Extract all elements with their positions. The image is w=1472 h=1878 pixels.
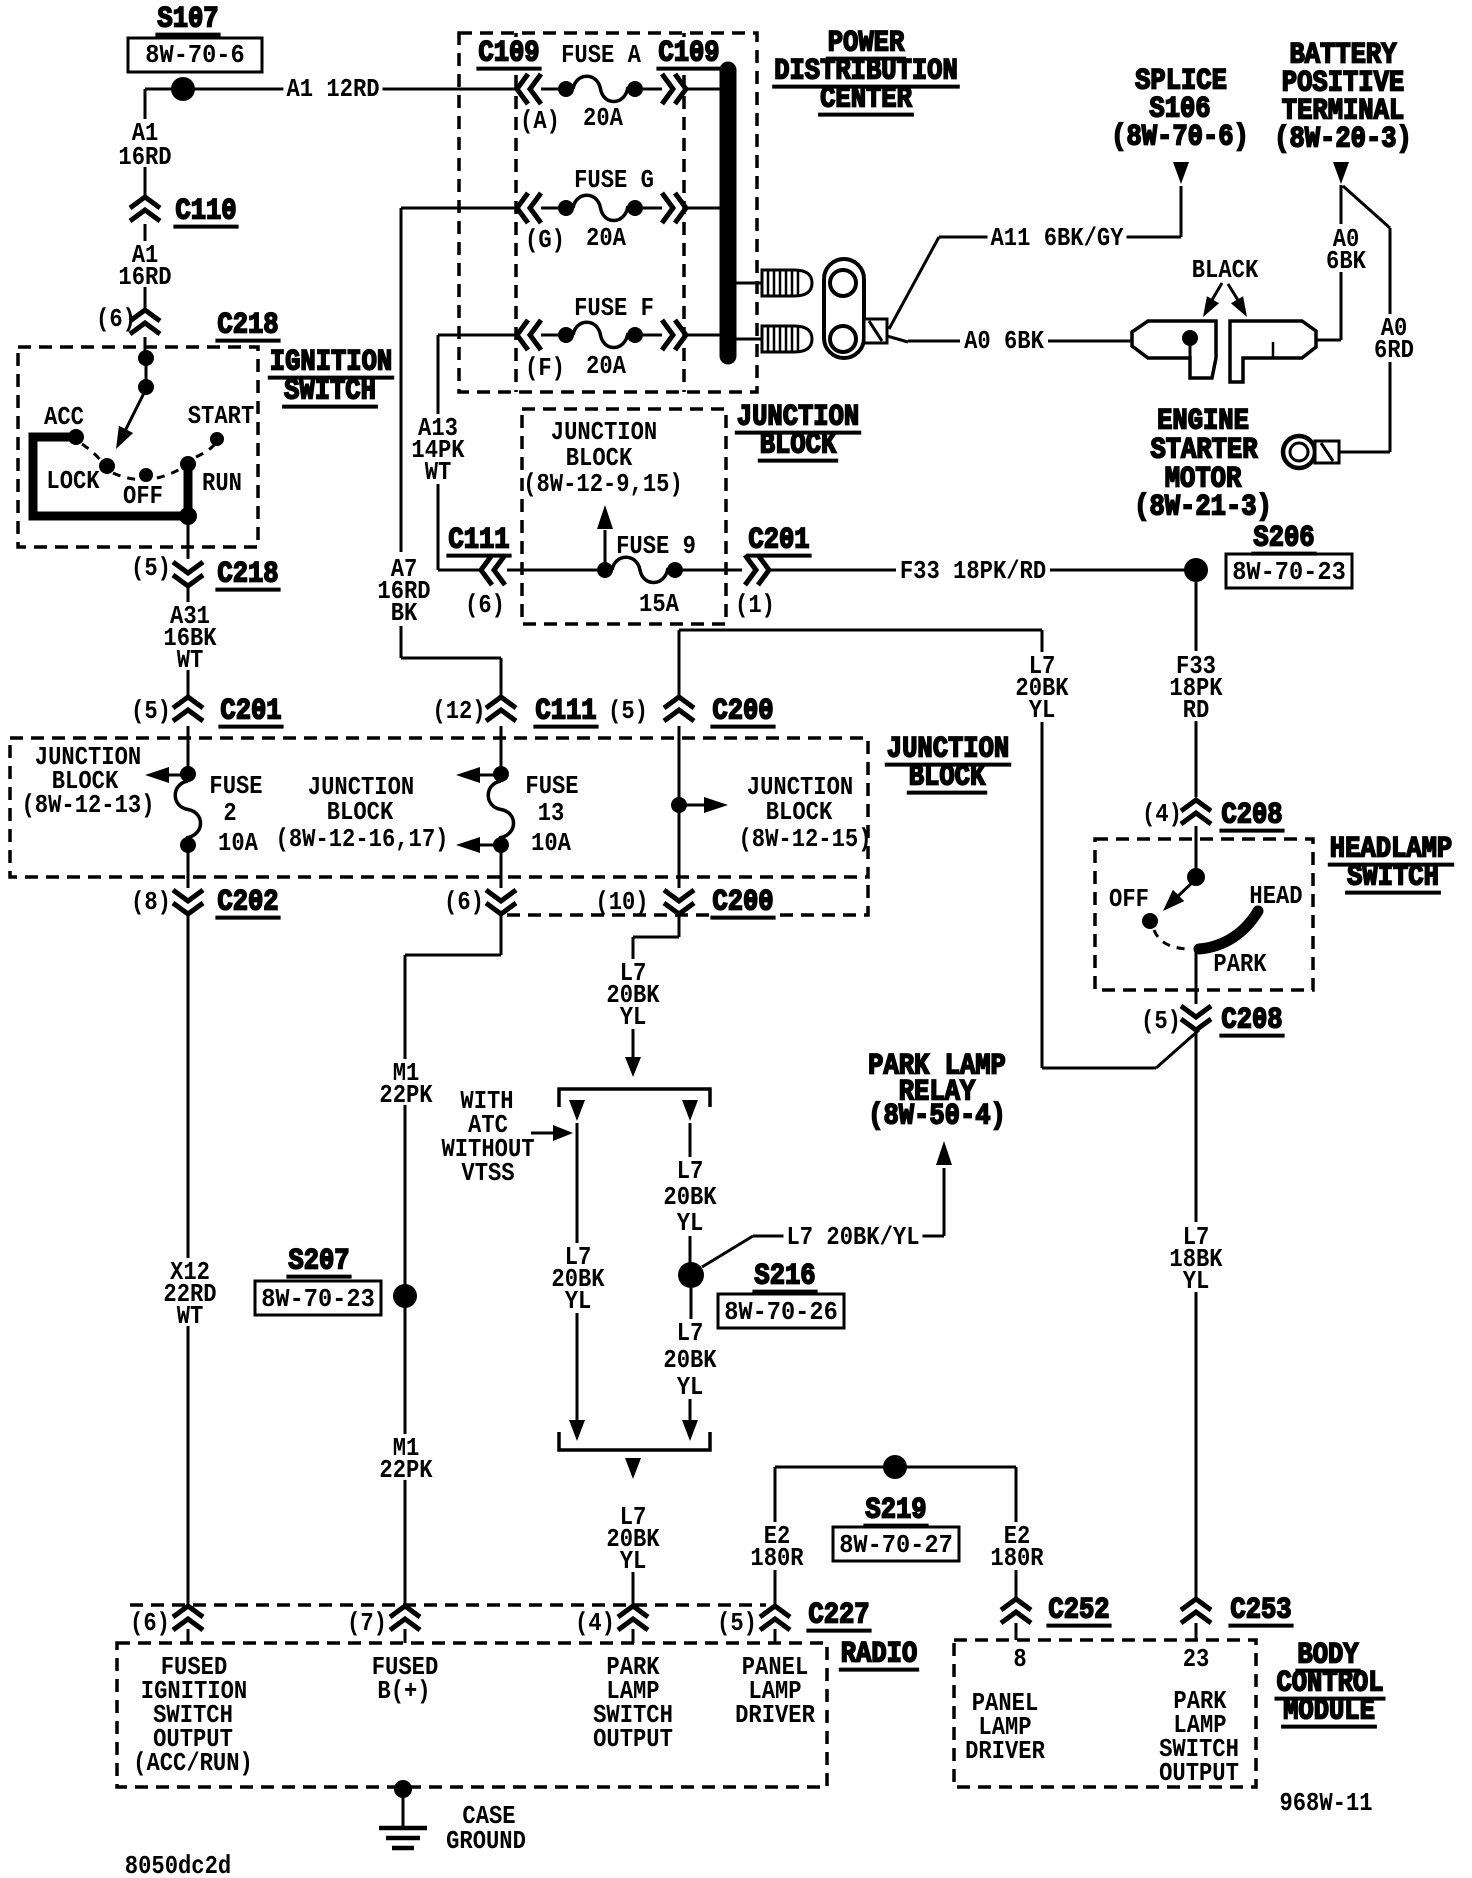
svg-text:C109: C109 xyxy=(658,37,719,71)
svg-text:(8W-12-15): (8W-12-15) xyxy=(739,824,872,854)
svg-text:(5): (5) xyxy=(131,553,171,583)
battery positive terminal title xyxy=(1274,39,1412,157)
svg-text:(6): (6) xyxy=(96,304,136,334)
case ground stem xyxy=(402,1789,405,1826)
wire A1 12RD from S107 to PDC fuse A xyxy=(183,88,516,91)
svg-text:YL: YL xyxy=(565,1286,592,1316)
pin label (8) of C202 xyxy=(131,887,171,917)
svg-text:L7 20BK/YL: L7 20BK/YL xyxy=(787,1222,920,1252)
svg-text:S207: S207 xyxy=(288,1245,349,1279)
svg-text:23: 23 xyxy=(1183,1644,1210,1674)
svg-text:10A: 10A xyxy=(531,828,571,858)
svg-text:F33 18PK/RD: F33 18PK/RD xyxy=(900,556,1046,586)
svg-text:(5): (5) xyxy=(131,696,171,726)
headlamp switch label OFF xyxy=(1109,884,1149,914)
wire A0 6BK from eyelet to starter clamp left xyxy=(887,336,1132,342)
wire label L7 20BK YL riser xyxy=(1012,651,1071,725)
svg-text:8W-70-26: 8W-70-26 xyxy=(724,1297,838,1327)
connector C111 pin 6 label xyxy=(446,524,511,620)
svg-text:20BK: 20BK xyxy=(663,1345,717,1375)
svg-text:DRIVER: DRIVER xyxy=(735,1700,815,1730)
connector C110 inline chevrons xyxy=(130,197,160,221)
wire label A0 6BK vertical xyxy=(1323,224,1369,276)
battery positive terminal leader arrowhead xyxy=(1333,162,1349,184)
connector C227 pin 5 chevrons xyxy=(760,1606,790,1643)
wire label A1 12RD xyxy=(283,74,382,104)
svg-text:10A: 10A xyxy=(218,828,258,858)
junction block 8W-12-13 inner label xyxy=(22,742,155,820)
connector C218 pin 6 chevrons xyxy=(130,310,160,334)
svg-text:S107: S107 xyxy=(157,3,218,37)
svg-text:2: 2 xyxy=(223,798,236,828)
arrowhead bottom right branch xyxy=(682,1420,698,1441)
wire label L7 20BK YL right branch lower xyxy=(660,1318,719,1402)
fuse F pin label (F) and rating 20A xyxy=(525,351,626,383)
splice S219 reference box 8W-70-27 xyxy=(833,1527,959,1561)
wire label A11 6BK/GY xyxy=(988,223,1127,253)
svg-text:(8): (8) xyxy=(131,887,171,917)
headlamp switch dashed arc OFF to PARK xyxy=(1154,930,1188,949)
arrowhead into ATC bracket xyxy=(625,1057,641,1077)
wire L7 20BK YL from C200 pin 5 up over to headlamp switch pin 5 xyxy=(679,630,1199,1068)
svg-text:VTSS: VTSS xyxy=(461,1158,514,1188)
svg-text:YL: YL xyxy=(677,1208,704,1238)
wire A13 14PK WT from fuse F down to C111 pin 6 xyxy=(438,335,516,570)
svg-text:(8W-12-16,17): (8W-12-16,17) xyxy=(276,824,449,854)
junction block 8W-12-9,15 dashed box xyxy=(522,409,726,624)
BCM pin 8 name PANEL LAMP DRIVER xyxy=(965,1688,1045,1766)
connector C202 pin 8 chevrons xyxy=(173,890,203,914)
connector C109 label right xyxy=(655,37,722,74)
splice S216 dot xyxy=(678,1262,704,1288)
svg-text:(8W-20-3): (8W-20-3) xyxy=(1274,123,1412,157)
fuse A row: C109 chevron, fuse element, C109 chevron xyxy=(517,74,722,104)
ignition switch wiper arm with arrowhead xyxy=(116,389,146,449)
svg-text:(8W-50-4): (8W-50-4) xyxy=(868,1100,1006,1134)
pin label (6) of C202 xyxy=(444,887,484,917)
svg-text:C202: C202 xyxy=(217,886,278,920)
connector C218 pin 5 chevrons xyxy=(173,562,203,586)
splice S216 title xyxy=(752,1260,817,1294)
wire A0 6RD from battery terminal to ring terminal xyxy=(1339,186,1390,452)
wire through fuse 2 xyxy=(187,726,190,888)
bus bar stub to terminal 1 xyxy=(736,282,762,285)
svg-text:20A: 20A xyxy=(583,103,623,133)
wire label A0 6RD vertical xyxy=(1371,313,1417,365)
fuse G row: C109 chevron, fuse element, C109 chevron xyxy=(517,193,722,223)
headlamp switch label HEAD xyxy=(1249,881,1302,911)
svg-text:C200: C200 xyxy=(712,695,773,729)
pin label (4) of C227 xyxy=(575,1608,615,1638)
svg-text:(ACC/RUN): (ACC/RUN) xyxy=(133,1748,253,1778)
wire L7 20BK YL from C200 pin 10 down to ATC bracket xyxy=(633,916,679,1058)
svg-text:WT: WT xyxy=(177,1301,204,1331)
svg-text:15A: 15A xyxy=(639,589,679,619)
sheet code 968W-11 xyxy=(1279,1788,1372,1818)
svg-text:C200: C200 xyxy=(712,886,773,920)
svg-text:OUTPUT: OUTPUT xyxy=(593,1724,673,1754)
BLACK leader arrow right xyxy=(1228,284,1247,317)
connector C227 dashed line xyxy=(130,1603,766,1607)
wire A7 16RD BK from fuse G down to C111 pin 12 xyxy=(401,208,516,695)
fuse F name label xyxy=(574,293,654,323)
ring terminal at starter xyxy=(1283,436,1339,468)
option bracket bottom xyxy=(559,1432,710,1450)
headlamp switch dashed box xyxy=(1095,839,1313,990)
fuse 2 leader arrow to 8W-12-13 xyxy=(145,767,186,783)
pin label (6) of C227 xyxy=(130,1608,170,1638)
junction dot at C200 branch xyxy=(671,797,687,813)
pin label (12) of C111 xyxy=(432,696,485,726)
pin label (5) of C208 xyxy=(1141,1006,1181,1036)
svg-text:C109: C109 xyxy=(478,37,539,71)
fuse G pin label (G) and rating 20A xyxy=(525,223,626,255)
ignition position label START xyxy=(188,401,255,431)
fuse F row: C109 chevron, fuse element, C109 chevron xyxy=(517,320,722,350)
ignition position dot LOCK xyxy=(99,458,115,474)
svg-text:S216: S216 xyxy=(754,1260,815,1294)
svg-text:180R: 180R xyxy=(990,1543,1044,1573)
splice S206 reference box 8W-70-23 xyxy=(1226,554,1352,588)
radio dashed box xyxy=(117,1643,827,1787)
wire label A13 14PK WT xyxy=(408,413,467,487)
svg-text:(6): (6) xyxy=(130,1608,170,1638)
svg-text:C111: C111 xyxy=(448,524,509,558)
splice S206 dot xyxy=(1184,558,1208,582)
svg-text:22PK: 22PK xyxy=(379,1080,433,1110)
starter clamp right half xyxy=(1230,321,1316,382)
connector C227 pin 7 chevrons xyxy=(390,1606,420,1643)
radio pin 4 name PARK LAMP SWITCH OUTPUT xyxy=(593,1652,673,1754)
svg-text:C218: C218 xyxy=(217,558,278,592)
connector C111 pin 6 chevrons (horizontal) xyxy=(481,555,505,585)
option arrow right branch xyxy=(682,1100,698,1121)
svg-text:BLOCK: BLOCK xyxy=(327,797,394,827)
svg-text:WT: WT xyxy=(177,645,204,675)
splice S106 title xyxy=(1111,65,1249,155)
junction block 8W-12-15 inner label xyxy=(739,772,872,854)
connector C110 label xyxy=(173,195,238,229)
BCM pin 8 label xyxy=(1013,1644,1026,1674)
svg-text:8W-70-23: 8W-70-23 xyxy=(1232,557,1346,587)
fuse 2 labels FUSE 2 10A xyxy=(209,771,262,858)
svg-text:YL: YL xyxy=(1183,1266,1210,1296)
BLACK leader arrow left xyxy=(1203,283,1222,317)
connector C201 pin 5 chevrons xyxy=(173,697,203,721)
wire F33 18PK RD from S206 down to C208 pin 4 xyxy=(1195,582,1198,797)
wire below S216 xyxy=(690,1288,691,1420)
svg-text:B(+): B(+) xyxy=(377,1676,430,1706)
svg-text:(10): (10) xyxy=(595,887,648,917)
power distribution center title xyxy=(772,27,960,117)
svg-text:GROUND: GROUND xyxy=(446,1826,526,1856)
wire through junction block at C200 xyxy=(678,726,681,888)
body control module title xyxy=(1275,1639,1386,1729)
connector C227 pin 6 chevrons xyxy=(173,1606,203,1643)
pin label (6) of C218 xyxy=(96,304,136,334)
wire from RUN contact down to C218 pin 5 xyxy=(187,516,190,559)
junction block strap connector (two-eye bracket) xyxy=(824,259,864,358)
wire A11 6BK/GY from eyelet up to splice S106 xyxy=(889,186,1181,329)
svg-text:FUSE: FUSE xyxy=(525,771,578,801)
svg-text:(4): (4) xyxy=(575,1608,615,1638)
svg-text:A0 6BK: A0 6BK xyxy=(964,326,1044,356)
svg-text:(5): (5) xyxy=(717,1608,757,1638)
svg-text:16RD: 16RD xyxy=(118,262,171,292)
connector C201 label xyxy=(218,695,283,729)
svg-text:(8W-12-9,15): (8W-12-9,15) xyxy=(523,469,683,499)
splice S207 dot xyxy=(393,1284,417,1308)
pin label (4) of C208 xyxy=(1142,799,1182,829)
ATC option bracket top xyxy=(559,1089,710,1107)
arrowhead bottom left branch xyxy=(569,1420,585,1441)
svg-text:8W-70-6: 8W-70-6 xyxy=(145,40,244,70)
arrowhead up to park lamp relay xyxy=(936,1141,952,1165)
svg-text:PARK: PARK xyxy=(1213,949,1267,979)
wire label L7 20BK/YL xyxy=(784,1222,923,1252)
splice S207 title xyxy=(286,1245,351,1279)
svg-text:C208: C208 xyxy=(1221,799,1282,833)
wire label A1 16RD lower xyxy=(115,240,174,292)
svg-text:8: 8 xyxy=(1013,1644,1026,1674)
svg-text:20A: 20A xyxy=(586,223,626,253)
wire label L7 18BK YL xyxy=(1166,1222,1225,1296)
wire label L7 20BK YL left branch xyxy=(548,1242,607,1316)
wire label F33 18PK/RD xyxy=(897,556,1049,586)
junction block lower dashed extension xyxy=(507,877,868,915)
wire M1 22PK from C202 pin 6 via S207 to radio pin 7 xyxy=(405,916,501,1604)
svg-text:OFF: OFF xyxy=(123,481,163,511)
svg-text:C253: C253 xyxy=(1230,1594,1291,1628)
wire label L7 20BK YL to radio xyxy=(603,1502,662,1576)
connector C208 pin 5 chevrons xyxy=(1181,1006,1211,1030)
wire label A31 16BK WT xyxy=(160,601,219,675)
wire label M1 22PK lower xyxy=(376,1433,435,1485)
WITH ATC leader arrow xyxy=(531,1125,573,1141)
svg-text:(4): (4) xyxy=(1142,799,1182,829)
svg-text:START: START xyxy=(188,401,255,431)
svg-text:FUSE: FUSE xyxy=(209,771,262,801)
connector C252 label xyxy=(1046,1594,1111,1628)
body control module dashed box xyxy=(954,1640,1256,1787)
svg-text:SWITCH: SWITCH xyxy=(1347,861,1439,895)
svg-text:ACC: ACC xyxy=(44,402,84,432)
svg-text:(8W-21-3): (8W-21-3) xyxy=(1134,491,1272,525)
connector C200 label upper xyxy=(710,695,775,729)
fuse A pin label (A) and rating 20A xyxy=(520,103,623,136)
option arrow left branch xyxy=(569,1100,585,1121)
splice S219 title xyxy=(863,1494,928,1528)
connector C253 label xyxy=(1228,1594,1293,1628)
fuse 9 name label xyxy=(616,531,696,561)
junction block label (top right of PDC) xyxy=(735,401,861,463)
connector C252 chevrons xyxy=(1001,1599,1031,1640)
splice S107 reference box 8W-70-6 xyxy=(128,38,262,72)
label WITH ATC WITHOUT VTSS xyxy=(441,1086,534,1188)
radio title xyxy=(839,1638,919,1672)
power distribution center inner dashed dividers xyxy=(516,33,684,392)
headlamp switch title xyxy=(1328,833,1454,895)
pin label (5) of C227 xyxy=(717,1608,757,1638)
park lamp relay title xyxy=(868,1050,1006,1134)
svg-text:20A: 20A xyxy=(586,351,626,381)
ignition switch output junction dot xyxy=(179,507,197,525)
wire label L7 20BK YL at C200 pin 10 xyxy=(603,958,662,1032)
label BLACK for clamp halves xyxy=(1192,255,1259,285)
wire label A1 16RD upper xyxy=(115,118,174,172)
svg-text:C201: C201 xyxy=(220,695,281,729)
wire L7 20BK YL right branch (without VTSS) xyxy=(689,1123,692,1263)
pin label (7) of C227 xyxy=(347,1608,387,1638)
connector C208 label upper xyxy=(1219,799,1284,833)
fuse 9 element with wire xyxy=(507,557,742,582)
svg-text:6RD: 6RD xyxy=(1374,335,1414,365)
junction block title (right side) xyxy=(885,733,1011,795)
wire A1 16RD from C110 to C218 xyxy=(144,224,147,308)
radio pin 5 name PANEL LAMP DRIVER xyxy=(735,1652,815,1730)
splice S219 dot xyxy=(883,1455,907,1479)
pin label (5) of C201 xyxy=(131,696,171,726)
pin label (5) of C200 xyxy=(608,696,648,726)
ignition switch thick contact bar ACC-RUN xyxy=(33,437,188,516)
headlamp switch OFF contact dot xyxy=(1142,913,1158,929)
splice S107 label xyxy=(155,3,220,37)
connector C202 label xyxy=(215,886,280,920)
sheet code 8050dc2d xyxy=(125,1851,231,1878)
pin label (10) of C200 xyxy=(592,887,651,917)
svg-text:13: 13 xyxy=(538,798,565,828)
svg-text:S206: S206 xyxy=(1253,522,1314,556)
svg-text:SWITCH: SWITCH xyxy=(284,375,376,409)
svg-text:A1 12RD: A1 12RD xyxy=(286,74,379,104)
ignition switch title xyxy=(268,346,394,409)
svg-text:FUSE A: FUSE A xyxy=(561,40,641,70)
svg-text:(A): (A) xyxy=(520,106,560,136)
svg-text:(G): (G) xyxy=(525,225,565,255)
svg-text:CENTER: CENTER xyxy=(820,83,912,117)
ignition switch dashed travel arc xyxy=(82,444,214,480)
ignition position label OFF xyxy=(123,481,163,511)
connector C111 pin 12 chevrons xyxy=(486,697,516,721)
ignition position dot RUN xyxy=(180,456,196,472)
svg-text:180R: 180R xyxy=(750,1543,804,1573)
ignition switch dashed box xyxy=(18,347,258,547)
svg-text:(5): (5) xyxy=(608,696,648,726)
wire L7 18BK YL from headlamp switch to BCM C253 xyxy=(1195,1032,1198,1597)
svg-text:BK: BK xyxy=(391,598,418,628)
fuse 13 element xyxy=(488,766,513,853)
connector C227 label xyxy=(806,1599,871,1633)
wire into headlamp switch xyxy=(1195,826,1198,877)
wire E2 180R tie bar with splice S219 xyxy=(775,1467,1016,1604)
wire label M1 22PK upper xyxy=(376,1058,435,1110)
wire label A0 6BK horizontal xyxy=(961,326,1047,356)
splice S106 leader arrowhead xyxy=(1173,162,1189,184)
connector C208 label lower xyxy=(1219,1004,1284,1038)
svg-text:YL: YL xyxy=(677,1372,704,1402)
fuse G name label xyxy=(574,165,654,195)
svg-text:RD: RD xyxy=(1183,695,1210,725)
BCM pin 23 label xyxy=(1183,1644,1210,1674)
battery feed terminal 2 (striped) xyxy=(762,326,812,352)
splice S107 junction dot xyxy=(171,77,195,101)
ignition position dot START xyxy=(210,432,224,446)
ignition position dot ACC xyxy=(68,429,84,445)
svg-text:C252: C252 xyxy=(1048,1594,1109,1628)
ignition position label RUN xyxy=(202,468,242,498)
svg-text:FUSE G: FUSE G xyxy=(574,165,654,195)
svg-text:(7): (7) xyxy=(347,1608,387,1638)
radio pin 7 name FUSED B(+) xyxy=(372,1652,439,1706)
connector C208 pin 4 chevrons xyxy=(1181,800,1211,824)
fuse 13 leader arrow upper xyxy=(456,767,499,783)
battery feed terminal 1 (striped) xyxy=(762,270,812,296)
wire label F33 18PK RD xyxy=(1166,651,1225,725)
svg-text:C201: C201 xyxy=(748,524,809,558)
svg-text:OUTPUT: OUTPUT xyxy=(1159,1758,1239,1788)
svg-text:8050dc2d: 8050dc2d xyxy=(125,1851,231,1878)
svg-text:(F): (F) xyxy=(525,353,565,383)
svg-text:(8W-12-13): (8W-12-13) xyxy=(22,790,155,820)
wire A31 16BK WT to junction block C201 xyxy=(187,588,190,695)
wire L7 20BK/YL from S216 to park lamp relay xyxy=(702,1168,944,1267)
connector C218 label lower xyxy=(215,558,280,592)
splice S207 reference box 8W-70-23 xyxy=(255,1281,381,1315)
connector C201 pin 1 label xyxy=(735,524,812,620)
BCM pin 23 name PARK LAMP SWITCH OUTPUT xyxy=(1159,1686,1239,1788)
svg-text:A11 6BK/GY: A11 6BK/GY xyxy=(991,223,1124,253)
headlamp switch thick PARK-HEAD contact arc xyxy=(1199,911,1258,949)
connector C200 label lower xyxy=(709,886,776,923)
svg-text:BLOCK: BLOCK xyxy=(909,761,986,795)
pin label (5) of C218 xyxy=(131,553,171,583)
fuse 2 element xyxy=(175,766,200,853)
ignition switch pivot dots xyxy=(138,350,154,395)
junction block dashed box (8W-12) xyxy=(10,738,868,877)
svg-text:C208: C208 xyxy=(1221,1004,1282,1038)
connector C202 pin 6 chevrons xyxy=(486,890,516,914)
svg-text:968W-11: 968W-11 xyxy=(1279,1788,1372,1818)
svg-text:(6): (6) xyxy=(465,590,505,620)
wire label E2 180R left xyxy=(747,1521,806,1573)
fuse 13 labels FUSE 13 10A xyxy=(525,771,578,858)
svg-text:RADIO: RADIO xyxy=(841,1638,918,1672)
wire label X12 22RD WT xyxy=(160,1257,219,1331)
headlamp switch wiper arm with arrowhead xyxy=(1163,879,1196,911)
junction block 8W-12-16,17 inner label xyxy=(276,772,449,854)
connector C201 pin 1 chevrons (horizontal) xyxy=(745,555,769,585)
svg-text:(8W-70-6): (8W-70-6) xyxy=(1111,121,1249,155)
svg-text:YL: YL xyxy=(1029,695,1056,725)
svg-text:C218: C218 xyxy=(217,309,278,343)
fuse 9 feed arrow up xyxy=(597,505,613,566)
connector C218 label upper xyxy=(215,309,280,343)
eyelet terminal square with crimp xyxy=(864,319,887,343)
svg-text:WT: WT xyxy=(425,457,452,487)
fuse 13 leader arrow lower xyxy=(456,837,499,853)
svg-text:C111: C111 xyxy=(535,695,596,729)
svg-text:BLACK: BLACK xyxy=(1192,255,1259,285)
junction block 8W-12-9,15 inner label xyxy=(523,417,683,499)
svg-text:8W-70-23: 8W-70-23 xyxy=(261,1284,375,1314)
power distribution center dashed box xyxy=(459,33,757,392)
svg-text:DRIVER: DRIVER xyxy=(965,1736,1045,1766)
svg-text:LOCK: LOCK xyxy=(46,466,100,496)
connector C109 label left xyxy=(475,37,542,74)
ignition position dot OFF xyxy=(139,468,153,482)
svg-text:BLOCK: BLOCK xyxy=(766,797,833,827)
wire A0 6BK from battery terminal to starter clamp xyxy=(1316,185,1341,340)
